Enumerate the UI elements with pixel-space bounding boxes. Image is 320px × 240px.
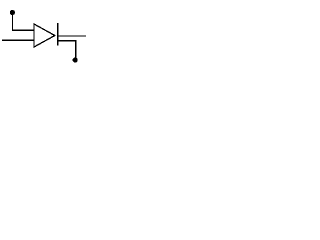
wire horizontal lower-left to diode anode: [2, 40, 35, 41]
wire vertical down to bottom junction: [75, 40, 76, 60]
wire vertical from top-left junction: [12, 13, 13, 30]
wire horizontal right from cathode: [59, 35, 87, 36]
diode D1 triangle (anode): [34, 24, 55, 47]
diode D1 cathode bar: [57, 23, 59, 46]
wire horizontal upper-left to diode anode: [12, 29, 35, 30]
junction dot (top-left node): [10, 10, 15, 15]
wire horizontal lower-right from cathode: [59, 40, 77, 41]
junction dot (bottom node): [73, 57, 78, 62]
